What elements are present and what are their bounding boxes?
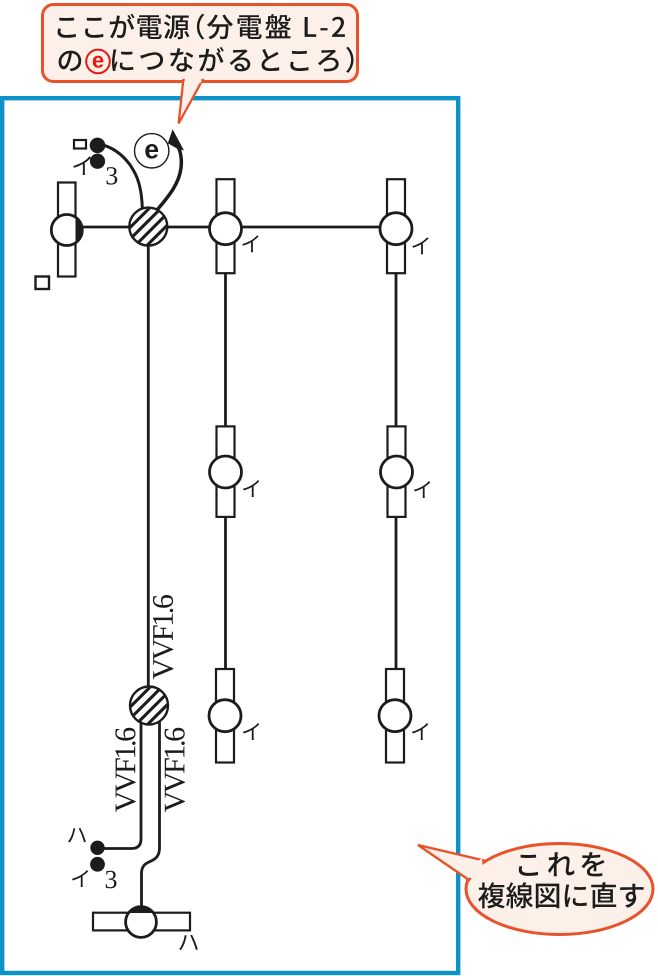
lamp label イ (イ row2-left) [243,480,259,497]
cable label VVF1.6 (right drop) [165,728,185,812]
fluorescent lamp イ row3-right [379,669,411,763]
wire: right column upper segment [395,273,398,427]
wire: left column lower segment [224,517,227,670]
red circled e (panel circuit mark) [86,50,110,74]
switch label 3 (bottom) [106,871,117,889]
lamp label イ (イ row3-right) [412,723,428,740]
switch label イ (bottom) [72,870,88,887]
lamp label イ (イ row3-left) [243,723,259,740]
switch label ハ (bottom) [68,828,86,843]
wire: cable to 3-way switch (bottom) [104,722,141,849]
3-way switch contacts, bottom [90,841,105,872]
wire: left column upper segment [224,273,227,427]
cable label VVF1.6 (center run) [153,595,173,679]
bubble text line 2a [59,51,82,72]
switch label イ (top) [73,156,91,175]
fluorescent lamp イ row2-left [210,426,242,517]
3-way switch contacts, top [90,138,106,169]
lamp label イ (イ row1-right) [412,237,428,254]
fluorescent lamp, top-left [51,183,82,277]
lamp label イ (イ row1-left) [242,235,258,252]
wire: curve from 3-way switch to junction box [103,145,142,209]
cable label VVF1.6 (left drop) [115,728,135,812]
switch label 3 (top) [107,167,118,185]
callout bubble: power-source note [43,5,358,124]
callout bubble: convert note [418,844,653,935]
wire: right column lower segment [395,517,398,670]
fluorescent lamp イ row1-right [380,179,412,273]
fluorescent lamp イ row1-left [210,179,242,273]
wire: power feed curve with arrow to source [158,129,185,209]
fluorescent lamp イ row3-left [209,669,241,763]
diagram border frame [2,98,458,973]
source terminal label: circled e [135,134,169,168]
small square (wall box), top-left [74,140,86,149]
bubble2 text line 2 [478,882,643,908]
fluorescent lamp ハ (bottom, horizontal) [93,907,190,938]
wire: top horizontal run [82,226,381,229]
bubble text line 1 [58,14,345,40]
bubble2 text line 1 [519,852,605,876]
wire: center vertical run (junction box to junction box) [147,245,150,688]
lamp label ハ (bottom) [179,935,198,950]
lamp label イ (イ row2-right) [414,481,430,498]
fluorescent lamp イ row2-right [381,426,413,517]
bubble text line 2b [112,47,354,73]
small square (wall box), below-left [36,277,50,290]
wire: cable to lamp ハ [142,722,160,908]
